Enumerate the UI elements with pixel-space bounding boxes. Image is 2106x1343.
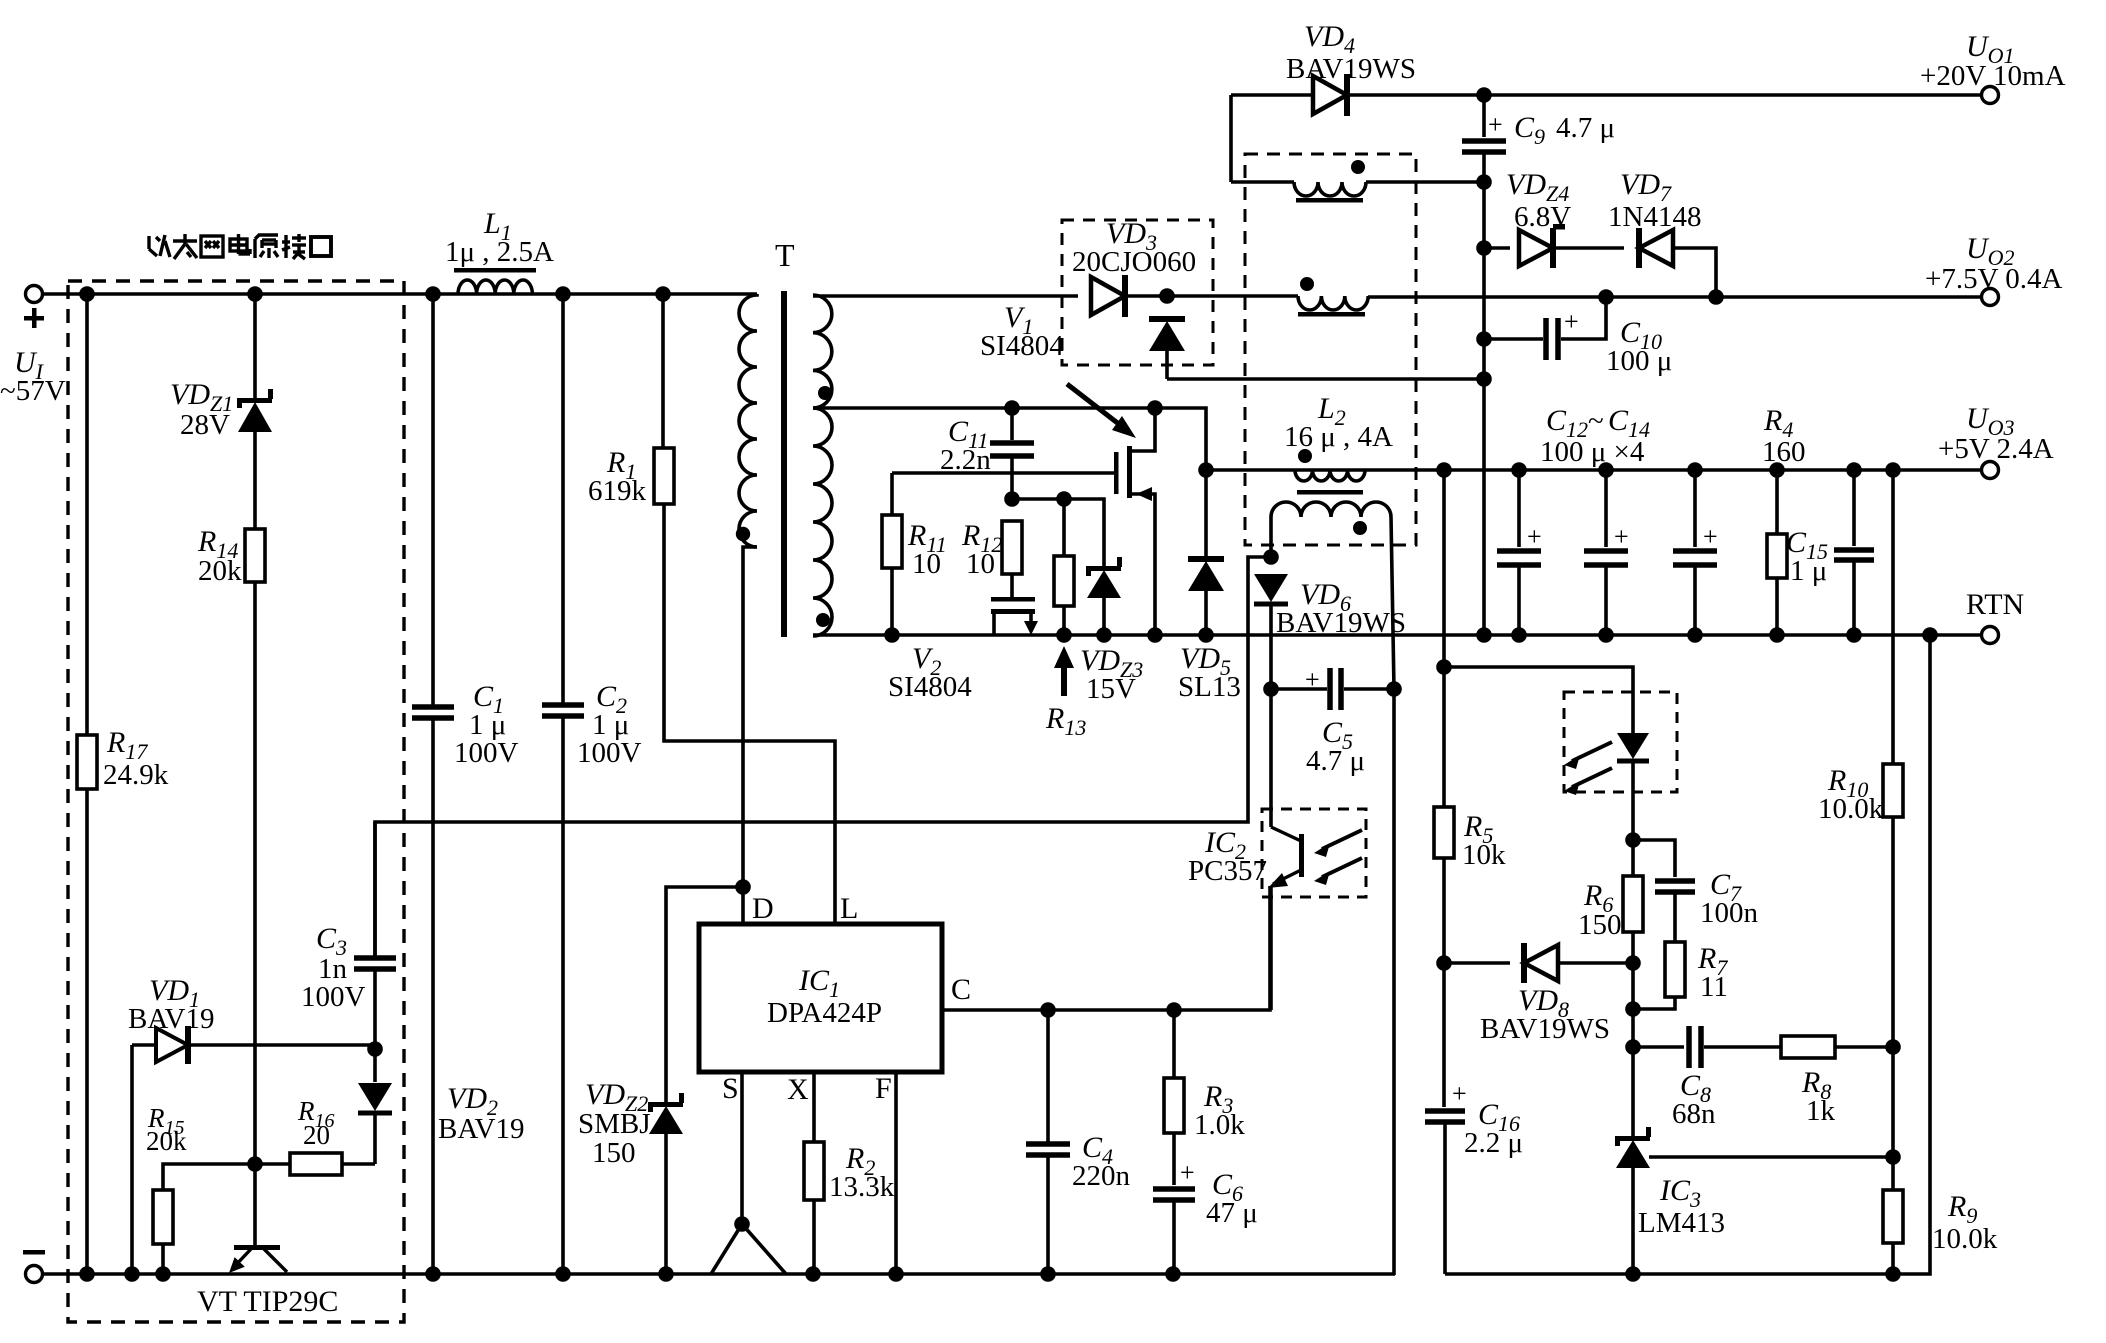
wire: D node to VDZ2 bbox=[666, 887, 743, 1103]
svg-text:10.0k: 10.0k bbox=[1818, 793, 1884, 825]
svg-text:16 μ , 4A: 16 μ , 4A bbox=[1284, 421, 1393, 453]
capacitor C10 100u (polarized) bbox=[1484, 297, 1606, 360]
inductor L2 16u 4A bbox=[1295, 470, 1365, 481]
node: VD5 bottom bbox=[1198, 627, 1214, 643]
label: C10 100u bbox=[1606, 316, 1672, 377]
transformer: aux winding 1 (top) bbox=[1231, 182, 1484, 196]
node: IC3 ref junction bbox=[1885, 1149, 1901, 1165]
svg-text:VT TIP29C: VT TIP29C bbox=[197, 1285, 338, 1318]
node: VDZ3 bottom bbox=[1096, 627, 1112, 643]
label: VD3 20CJO060 bbox=[1072, 217, 1196, 278]
svg-text:SI4804: SI4804 bbox=[980, 330, 1064, 362]
node: R11 bottom bbox=[884, 627, 900, 643]
svg-text:100V: 100V bbox=[301, 981, 366, 1013]
terminal: - input bbox=[23, 1250, 45, 1283]
svg-text:L: L bbox=[840, 892, 858, 925]
capacitor C16 2.2u (polarized) bbox=[1425, 963, 1467, 1274]
terminal: UO3 bbox=[1982, 462, 1999, 479]
label: R16 20 bbox=[297, 1096, 335, 1150]
svg-text:150: 150 bbox=[592, 1137, 636, 1169]
wire: R5 chain vertical (x=1444) bbox=[1442, 470, 1446, 667]
svg-text:10: 10 bbox=[912, 548, 941, 580]
svg-text:28V: 28V bbox=[180, 409, 230, 441]
node: C12 bottom bbox=[1511, 627, 1527, 643]
wire: secondary return rail RTN (y=635) bbox=[813, 633, 1990, 637]
label: C12~C14 100u x4 bbox=[1540, 404, 1650, 468]
node: C15 top bbox=[1846, 462, 1862, 478]
label: R8 1k bbox=[1801, 1066, 1836, 1127]
transformer: L2 core bar bbox=[1297, 490, 1363, 495]
label: VD1 BAV19 bbox=[128, 974, 215, 1035]
svg-text:+: + bbox=[1305, 665, 1320, 694]
node: IC3 bottom bbox=[1625, 1266, 1641, 1282]
capacitor C9 4.7u (polarized) bbox=[1462, 95, 1506, 182]
node: aux winding 1 phase dot bbox=[1351, 160, 1365, 174]
label: C5 4.7u bbox=[1306, 716, 1365, 777]
label: C3 1n 100V bbox=[301, 922, 366, 1013]
node: VD8 right junction bbox=[1436, 955, 1452, 971]
wire: +7.5V rail (y=297) bbox=[1368, 295, 1990, 299]
diode VD8 BAV19WS bbox=[1444, 943, 1633, 983]
svg-text:+20V 10mA: +20V 10mA bbox=[1920, 60, 2066, 92]
svg-text:220n: 220n bbox=[1072, 1160, 1131, 1192]
svg-text:+: + bbox=[1488, 110, 1503, 139]
node: x1484 RTN junction bbox=[1476, 627, 1492, 643]
wire: R8 node to IC3 ref node bbox=[1891, 1047, 1895, 1157]
transformer: aux winding 1 core bar bbox=[1296, 198, 1363, 203]
node: F pin bottom bbox=[888, 1266, 904, 1282]
wire: LED branch (y=667) bbox=[1444, 667, 1633, 733]
node: junction VDZ1 top bbox=[247, 286, 263, 302]
svg-text:+: + bbox=[1703, 522, 1718, 551]
label: pin D bbox=[752, 892, 774, 925]
diode VD6 BAV19WS bbox=[1254, 574, 1288, 689]
svg-text:20: 20 bbox=[303, 1120, 330, 1150]
label: UO3 +5V 2.4A bbox=[1938, 402, 2054, 465]
optocoupler IC2 PC357 (phototransistor) bbox=[1262, 689, 1366, 1010]
node: L2 phase dot bbox=[1298, 449, 1312, 463]
svg-text:LM413: LM413 bbox=[1638, 1207, 1725, 1239]
node: C10 left junction bbox=[1476, 331, 1492, 347]
node: C14 top bbox=[1687, 462, 1703, 478]
svg-text:68n: 68n bbox=[1672, 1098, 1716, 1130]
label: VDZ1 28V bbox=[170, 378, 233, 441]
svg-text:24.9k: 24.9k bbox=[103, 759, 169, 791]
capacitor C5 4.7u bbox=[1271, 665, 1394, 710]
diode VD2 bbox=[358, 1049, 392, 1116]
label: VD8 BAV19WS bbox=[1480, 984, 1610, 1045]
diode VD4 BAV19WS bbox=[1313, 74, 1350, 116]
label: C9 4.7u bbox=[1514, 111, 1615, 149]
node: secondary phase dot lower bbox=[816, 613, 830, 627]
label: pin L bbox=[840, 892, 858, 925]
capacitor C6 47u (polarized) bbox=[1153, 1158, 1195, 1274]
node: junction C1 top bbox=[425, 286, 441, 302]
ic IC3 LM413 (shunt reference) bbox=[1615, 1127, 1893, 1274]
transformer: aux winding 2 (UO2) bbox=[1298, 296, 1368, 310]
label: Ethernet power interface title (以太网电源接口) bbox=[149, 234, 331, 259]
capacitor C7 + resistor R7 branch bbox=[1633, 840, 1695, 1009]
zener diode VDZ1 28V bbox=[237, 294, 273, 529]
label: IC2 PC357 bbox=[1188, 826, 1267, 887]
wire: aux winding to C3 (long feedback line) bbox=[375, 557, 1271, 956]
node: LED branch junction bbox=[1436, 659, 1452, 675]
node: VT base node bbox=[247, 1156, 263, 1172]
capacitor C2 bbox=[542, 294, 584, 1274]
zener diode VDZ2 SMBJ150 bbox=[648, 1093, 684, 1274]
node: C13 top bbox=[1598, 462, 1614, 478]
svg-text:1.0k: 1.0k bbox=[1194, 1109, 1245, 1141]
svg-text:20k: 20k bbox=[146, 1126, 187, 1156]
diode VD7 1N4148 bbox=[1636, 228, 1716, 297]
label: V2 SI4804 bbox=[888, 642, 972, 703]
node: junction C2 top bbox=[555, 286, 571, 302]
svg-text:+: + bbox=[1180, 1158, 1195, 1187]
node: junction R1 top bbox=[655, 286, 671, 302]
ic IC1 DPA424P box bbox=[699, 924, 942, 1072]
wire: gate drive bus (y=499) bbox=[1012, 499, 1104, 566]
node: C10 top junction bbox=[1598, 289, 1614, 305]
label: C1 1u 100V bbox=[454, 680, 519, 769]
resistor R16 bbox=[255, 1114, 375, 1175]
node: R4 bottom bbox=[1769, 627, 1785, 643]
svg-text:11: 11 bbox=[1700, 971, 1728, 1003]
label: C11 2.2n bbox=[940, 415, 991, 476]
diode VD5 SL13 bbox=[1188, 470, 1224, 635]
node: C4 top junction bbox=[1040, 1002, 1056, 1018]
resistor R11 bbox=[882, 473, 902, 635]
node: VD1 bottom bbox=[124, 1266, 140, 1282]
node: R13 bottom bbox=[1056, 627, 1072, 643]
svg-text:150: 150 bbox=[1578, 909, 1622, 941]
svg-text:4.7 μ: 4.7 μ bbox=[1306, 745, 1365, 777]
svg-text:15V: 15V bbox=[1086, 673, 1136, 705]
label: VDZ3 15V bbox=[1080, 644, 1143, 705]
wire: VD3 anode-bottom to C9 node (y=379) bbox=[1167, 377, 1484, 381]
node: C9 top junction bbox=[1476, 87, 1492, 103]
node: C4 bottom bbox=[1040, 1266, 1056, 1282]
label: C2 1u 100V bbox=[577, 680, 642, 769]
wire: C pin line (y=1010) bbox=[942, 886, 1270, 1010]
zener diode VDZ3 15V bbox=[1086, 557, 1122, 635]
svg-text:SI4804: SI4804 bbox=[888, 671, 972, 703]
inductor L2 coupled winding bbox=[1271, 502, 1394, 689]
svg-text:1 μ: 1 μ bbox=[1790, 555, 1827, 587]
resistor R9 10.0k bbox=[1883, 1157, 1903, 1274]
wire: primary ground rail (y=1274) bbox=[34, 1272, 1395, 1276]
svg-text:100n: 100n bbox=[1700, 897, 1759, 929]
resistor R1 bbox=[654, 294, 835, 924]
svg-text:+5V 2.4A: +5V 2.4A bbox=[1938, 433, 2054, 465]
node: L2 aux phase dot bbox=[1353, 521, 1367, 535]
label: VDZ4 6.8V bbox=[1506, 168, 1571, 233]
label: pin S bbox=[722, 1072, 739, 1105]
resistor R13 bbox=[1054, 499, 1074, 635]
node: y379 junction bbox=[1476, 371, 1492, 387]
svg-text:BAV19: BAV19 bbox=[438, 1113, 525, 1145]
label: T bbox=[775, 237, 795, 273]
svg-text:619k: 619k bbox=[588, 475, 647, 507]
svg-text:+7.5V 0.4A: +7.5V 0.4A bbox=[1925, 263, 2063, 295]
node: C13 bottom bbox=[1598, 627, 1614, 643]
svg-text:+: + bbox=[1452, 1079, 1467, 1108]
node: C8 branch junction bbox=[1625, 1039, 1641, 1055]
capacitor C8 + resistor R8 branch bbox=[1633, 1026, 1893, 1068]
svg-text:BAV19: BAV19 bbox=[128, 1003, 215, 1035]
node: C5 right junction bbox=[1386, 681, 1402, 697]
wire: input positive rail (top-left, y=294) bbox=[34, 292, 757, 296]
svg-text:BAV19WS: BAV19WS bbox=[1480, 1013, 1610, 1045]
label: UO2 +7.5V 0.4A bbox=[1925, 232, 2063, 295]
box: Ethernet power interface (dashed) bbox=[68, 281, 404, 1322]
wire+resistor R2 on X pin bbox=[804, 1072, 824, 1274]
label: R13 with pointer arrow bbox=[1045, 646, 1086, 740]
svg-text:T: T bbox=[775, 237, 795, 273]
node: VD3 cathode junction bbox=[1159, 288, 1175, 304]
node: aux winding 2 phase dot bbox=[1300, 277, 1314, 291]
wire: C9/VDZ4/C10 vertical bus (x=1484) bbox=[1482, 182, 1486, 635]
node: R7 bottom junction bbox=[1625, 1001, 1641, 1017]
label: R15 20k bbox=[146, 1103, 187, 1156]
node: RTN rail junction bbox=[1922, 627, 1938, 643]
node: C11 bottom junction bbox=[1004, 491, 1020, 507]
svg-text:X: X bbox=[787, 1073, 809, 1106]
node: VD1/C3 junction bbox=[367, 1041, 383, 1057]
terminal: UO2 bbox=[1982, 289, 1999, 306]
node: aux1/C9 junction bbox=[1476, 174, 1492, 190]
node: R2 bottom bbox=[805, 1266, 821, 1282]
box: output winding dashed outline bbox=[1245, 154, 1416, 545]
node: V1 drain junction bbox=[1147, 400, 1163, 416]
node: R4 top bbox=[1769, 462, 1785, 478]
label: C15 1u bbox=[1786, 526, 1828, 587]
zener diode VDZ4 6.8V bbox=[1484, 224, 1624, 268]
node: R6 bottom junction bbox=[1625, 955, 1641, 971]
capacitor C14 100u (polarized) bbox=[1673, 470, 1718, 635]
svg-text:+: + bbox=[1564, 307, 1579, 336]
label: C7 100n bbox=[1700, 868, 1759, 929]
svg-text:~57V: ~57V bbox=[0, 375, 66, 407]
resistor R12 bbox=[1002, 521, 1022, 597]
resistor R5 10k bbox=[1434, 667, 1454, 963]
node: primary phase dot bbox=[736, 527, 750, 541]
capacitor C11 bbox=[990, 408, 1034, 499]
label: R9 10.0k bbox=[1932, 1190, 1998, 1255]
label: R12 10 bbox=[961, 519, 1002, 580]
node: C5 left junction bbox=[1263, 681, 1279, 697]
annotation arrow (points at V1) bbox=[1067, 384, 1136, 438]
label: VT TIP29C bbox=[197, 1285, 338, 1318]
node: V1 source bottom bbox=[1147, 627, 1163, 643]
LED (optocoupler emitter side) bbox=[1564, 692, 1677, 840]
label: VD5 SL13 bbox=[1178, 642, 1241, 703]
svg-text:BAV19WS: BAV19WS bbox=[1286, 53, 1416, 85]
node: C12 top bbox=[1511, 462, 1527, 478]
svg-text:100 μ: 100 μ bbox=[1606, 345, 1672, 377]
wire: S pin to ground (tent) bbox=[711, 1072, 786, 1274]
node: R3 top junction bbox=[1166, 1002, 1182, 1018]
wire: +20V rail (y=95) bbox=[1231, 93, 1990, 97]
transformer: aux winding 2 core bar bbox=[1298, 312, 1365, 317]
label: VD7 1N4148 bbox=[1608, 168, 1701, 233]
svg-text:100 μ ×4: 100 μ ×4 bbox=[1540, 436, 1645, 468]
node: S pin tent apex bbox=[734, 1216, 750, 1232]
node: VD5 top junction bbox=[1198, 462, 1214, 478]
svg-text:SL13: SL13 bbox=[1178, 671, 1241, 703]
terminal: RTN bbox=[1982, 627, 1999, 644]
label: R6 150 bbox=[1578, 879, 1622, 941]
label: IC1 DPA424P bbox=[767, 964, 882, 1029]
svg-text:1k: 1k bbox=[1806, 1095, 1836, 1127]
resistor R17 bbox=[77, 294, 97, 1274]
capacitor C4 220n bbox=[1026, 1010, 1070, 1274]
inductor L1 1u 2.5A bbox=[454, 268, 536, 294]
label: U_I ~57V bbox=[0, 346, 66, 407]
svg-text:F: F bbox=[875, 1072, 892, 1105]
resistor R6 150 bbox=[1623, 840, 1643, 963]
svg-text:DPA424P: DPA424P bbox=[767, 997, 882, 1029]
label: pin X bbox=[787, 1073, 809, 1106]
label: R14 20k bbox=[197, 525, 242, 587]
svg-text:C: C bbox=[951, 973, 971, 1006]
node: VD6 anode junction bbox=[1263, 549, 1279, 565]
diode VD1 bbox=[132, 1026, 375, 1274]
svg-text:+: + bbox=[1614, 522, 1629, 551]
svg-text:10k: 10k bbox=[1462, 839, 1506, 871]
node: R17 bottom bbox=[79, 1266, 95, 1282]
node: D pin junction bbox=[735, 879, 751, 895]
svg-text:20CJO060: 20CJO060 bbox=[1072, 246, 1196, 278]
transformer T secondary winding upper bbox=[813, 295, 832, 408]
label: R5 10k bbox=[1462, 810, 1506, 871]
node: R3/C6 bottom bbox=[1165, 1266, 1181, 1282]
label: R17 24.9k bbox=[103, 726, 169, 791]
label: pin F bbox=[875, 1072, 892, 1105]
label: R3 1.0k bbox=[1194, 1080, 1245, 1141]
transistor V2 SI4804 (MOSFET) bbox=[991, 597, 1038, 635]
label: R11 10 bbox=[907, 519, 947, 580]
label: UO1 +20V 10mA bbox=[1920, 30, 2066, 92]
label: L1 1u,2.5A bbox=[445, 207, 554, 268]
node: C2 bottom bbox=[555, 1266, 571, 1282]
label: L2 16u,4A bbox=[1284, 392, 1393, 453]
label: pin C bbox=[951, 973, 971, 1006]
svg-text:100V: 100V bbox=[577, 737, 642, 769]
svg-text:4.7 μ: 4.7 μ bbox=[1556, 112, 1615, 144]
node: C11 top junction bbox=[1004, 400, 1020, 416]
label: V1 SI4804 bbox=[980, 301, 1064, 362]
node: LED cathode junction bbox=[1625, 832, 1641, 848]
label: R10 10.0k bbox=[1818, 764, 1884, 825]
box: VD3 dashed outline bbox=[1062, 220, 1213, 365]
transistor VT TIP29C bbox=[229, 1164, 287, 1273]
node: R5-chain top junction bbox=[1436, 462, 1452, 478]
wire: primary bottom to IC1 D bbox=[743, 547, 757, 924]
svg-text:2.2n: 2.2n bbox=[940, 444, 991, 476]
svg-text:S: S bbox=[722, 1072, 739, 1105]
svg-text:1N4148: 1N4148 bbox=[1608, 201, 1701, 233]
svg-text:PC357: PC357 bbox=[1188, 855, 1267, 887]
diode VD3 (series element) bbox=[1091, 275, 1298, 317]
wire: F pin to ground bbox=[894, 1072, 898, 1274]
node: junction R17 top bbox=[79, 286, 95, 302]
node: R10 top bbox=[1885, 462, 1901, 478]
transformer T secondary winding lower bbox=[813, 408, 832, 636]
svg-text:20k: 20k bbox=[198, 555, 242, 587]
node: C14 bottom bbox=[1687, 627, 1703, 643]
svg-text:160: 160 bbox=[1762, 436, 1806, 468]
node: R13 top junction bbox=[1056, 491, 1072, 507]
resistor R14 bbox=[245, 529, 265, 1164]
node: R15 bottom bbox=[155, 1266, 171, 1282]
svg-text:RTN: RTN bbox=[1966, 588, 2024, 621]
label: VD4 BAV19WS bbox=[1286, 20, 1416, 85]
node: C15 bottom bbox=[1846, 627, 1862, 643]
resistor R10 10.0k bbox=[1883, 470, 1903, 1047]
svg-text:47 μ: 47 μ bbox=[1206, 1197, 1258, 1229]
diode VD3 (shunt element, cathode up) bbox=[1149, 316, 1185, 379]
capacitor C12 100u (polarized) bbox=[1497, 470, 1542, 635]
svg-text:+: + bbox=[1527, 522, 1542, 551]
wire: secondary tap (y=408) bbox=[813, 408, 1206, 470]
capacitor C13 100u (polarized) bbox=[1584, 470, 1629, 635]
svg-text:SMBJ: SMBJ bbox=[578, 1108, 651, 1140]
svg-text:100V: 100V bbox=[454, 737, 519, 769]
svg-text:1μ , 2.5A: 1μ , 2.5A bbox=[445, 236, 554, 268]
svg-text:BAV19WS: BAV19WS bbox=[1276, 607, 1406, 639]
node: VDZ2 bottom bbox=[658, 1266, 674, 1282]
label: VD6 BAV19WS bbox=[1276, 578, 1406, 639]
transformer T core bbox=[781, 291, 787, 637]
wire: secondary ground rail (y=1274 right) bbox=[1445, 635, 1930, 1274]
node: VD7 branch junction bbox=[1708, 289, 1724, 305]
label: R2 13.3k bbox=[829, 1142, 895, 1203]
label: RTN bbox=[1966, 588, 2024, 621]
label: C16 2.2u bbox=[1464, 1098, 1523, 1159]
label: VDZ2 SMBJ 150 bbox=[578, 1078, 651, 1169]
svg-text:10: 10 bbox=[966, 548, 995, 580]
wire: VD4 branch vertical bbox=[1229, 95, 1233, 182]
capacitor C1 bbox=[412, 294, 454, 1274]
svg-text:10.0k: 10.0k bbox=[1932, 1223, 1998, 1255]
svg-text:6.8V: 6.8V bbox=[1514, 201, 1571, 233]
label: R1 619k bbox=[588, 446, 647, 507]
svg-text:13.3k: 13.3k bbox=[829, 1171, 895, 1203]
resistor R3 bbox=[1164, 1010, 1184, 1185]
node: secondary phase dot upper bbox=[818, 386, 832, 400]
label: C8 68n bbox=[1672, 1069, 1716, 1130]
capacitor C15 1u bbox=[1834, 470, 1874, 635]
transformer T primary winding bbox=[739, 294, 757, 547]
node: C1 bottom bbox=[425, 1266, 441, 1282]
label: C6 47u bbox=[1206, 1168, 1258, 1229]
wire: secondary top to VD3 bbox=[813, 294, 1078, 298]
wire: C5- riser to primary rail (x=1394) bbox=[1392, 689, 1396, 1275]
svg-text:2.2 μ: 2.2 μ bbox=[1464, 1127, 1523, 1159]
label: R7 11 bbox=[1697, 942, 1728, 1003]
capacitor C3 bbox=[354, 822, 396, 1049]
label: C4 220n bbox=[1072, 1131, 1131, 1192]
wire: IC3 bus (x=1633) bbox=[1631, 963, 1635, 1137]
transistor V1 SI4804 (MOSFET) bbox=[892, 408, 1155, 635]
terminal: + input bbox=[24, 286, 44, 329]
node: R9 bottom bbox=[1885, 1266, 1901, 1282]
label: IC3 LM413 bbox=[1638, 1174, 1725, 1239]
resistor R4 160 bbox=[1767, 470, 1787, 635]
label: R4 160 bbox=[1762, 404, 1806, 468]
resistor R15 bbox=[153, 1164, 255, 1274]
node: R8 right junction bbox=[1885, 1039, 1901, 1055]
